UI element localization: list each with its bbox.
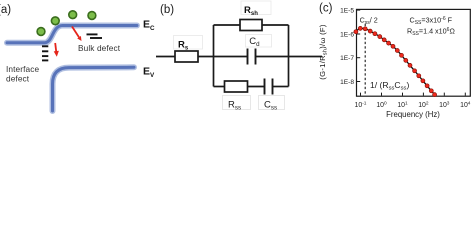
svg-text:(c): (c) — [319, 3, 333, 15]
x tick labels — [355, 100, 471, 109]
svg-text:Interface: Interface — [6, 64, 39, 74]
panel label (b) — [160, 4, 174, 16]
label box C_ss — [259, 96, 285, 110]
svg-text:(b): (b) — [160, 4, 174, 16]
annotation C_SS value — [410, 16, 453, 27]
red capture arrow to bulk defect — [72, 27, 82, 42]
electron circle 2 — [51, 17, 59, 25]
wire: C_ss to right junction — [273, 86, 289, 88]
value label R_sh — [244, 5, 258, 17]
resistor R_s — [175, 51, 198, 62]
wire: top branch right segment — [262, 24, 289, 26]
valence band E_V curve — [53, 67, 135, 111]
dashed marker line at peak frequency — [364, 24, 366, 96]
resistor R_sh — [240, 20, 262, 31]
svg-text:1E-5: 1E-5 — [340, 8, 354, 15]
interface defect state ladder — [42, 46, 48, 60]
node: left junction vertical — [213, 25, 215, 87]
wire: top branch left segment — [214, 24, 241, 26]
capacitor C_ss — [265, 79, 273, 95]
label E_V — [143, 66, 155, 79]
svg-text:1E-7: 1E-7 — [340, 55, 354, 62]
svg-text:CSS=3x10-6 F: CSS=3x10-6 F — [410, 16, 453, 27]
svg-text:Frequency (Hz): Frequency (Hz) — [386, 110, 440, 119]
svg-text:101: 101 — [397, 100, 408, 109]
panel label (a) — [0, 4, 11, 16]
label box C_d — [246, 35, 272, 48]
value label C_ss — [264, 100, 277, 112]
conduction band E_C curve — [7, 26, 137, 43]
y tick labels — [340, 8, 354, 86]
svg-text:EV: EV — [143, 66, 155, 79]
data points — [354, 26, 437, 96]
label box R_s — [174, 36, 203, 50]
annotation 1/(RssCss) — [370, 80, 409, 92]
svg-text:(G-1/Rsh)/ω (F): (G-1/Rsh)/ω (F) — [318, 24, 329, 80]
svg-text:RSS=1.4 x106Ω: RSS=1.4 x106Ω — [407, 27, 455, 38]
plot frame — [357, 9, 471, 96]
capacitor C_d — [248, 49, 256, 65]
label E_C — [143, 19, 155, 32]
svg-text:Bulk defect: Bulk defect — [78, 43, 121, 53]
svg-text:defect: defect — [6, 74, 30, 84]
y axis tick marks — [357, 10, 360, 81]
wire: R_s to C_d left plate (through left node) — [198, 56, 248, 58]
y axis title — [318, 24, 329, 80]
svg-text:103: 103 — [439, 100, 450, 109]
wire: C_d right plate to right lead — [256, 56, 323, 58]
bulk defect level lines — [87, 34, 103, 38]
svg-text:Css/ 2: Css/ 2 — [360, 16, 378, 27]
resistor R_ss — [225, 81, 248, 92]
electron circle 4 — [88, 12, 96, 20]
electron circle 1 — [37, 28, 45, 36]
electron circle 3 — [69, 11, 77, 19]
wire: left lead into R_s — [156, 56, 175, 58]
svg-text:1/ (RssCss): 1/ (RssCss) — [370, 80, 409, 92]
x axis title — [386, 110, 440, 119]
red capture arrow to interface defect — [54, 43, 59, 57]
value label C_d — [249, 36, 260, 48]
svg-text:104: 104 — [460, 100, 471, 109]
svg-text:1E-8: 1E-8 — [340, 79, 354, 86]
wire: R_ss to C_ss — [248, 86, 265, 88]
label box R_ss — [223, 96, 251, 110]
wire: bottom branch left segment — [214, 86, 225, 88]
svg-text:100: 100 — [376, 100, 387, 109]
x axis tick marks — [361, 93, 466, 96]
label Interface defect — [6, 64, 39, 84]
svg-text:102: 102 — [418, 100, 429, 109]
svg-text:(a): (a) — [0, 4, 11, 16]
node: right junction vertical — [288, 25, 290, 87]
annotation C_ss/2 — [360, 16, 378, 27]
fit curve — [356, 28, 434, 93]
annotation R_SS value — [407, 27, 455, 38]
svg-text:EC: EC — [143, 19, 155, 32]
label box R_sh — [241, 1, 271, 15]
label Bulk defect — [78, 43, 121, 53]
value label R_s — [178, 40, 189, 52]
svg-text:10-1: 10-1 — [355, 100, 367, 109]
svg-text:1E-6: 1E-6 — [340, 31, 354, 38]
value label R_ss — [228, 100, 241, 112]
panel label (c) — [319, 3, 333, 15]
